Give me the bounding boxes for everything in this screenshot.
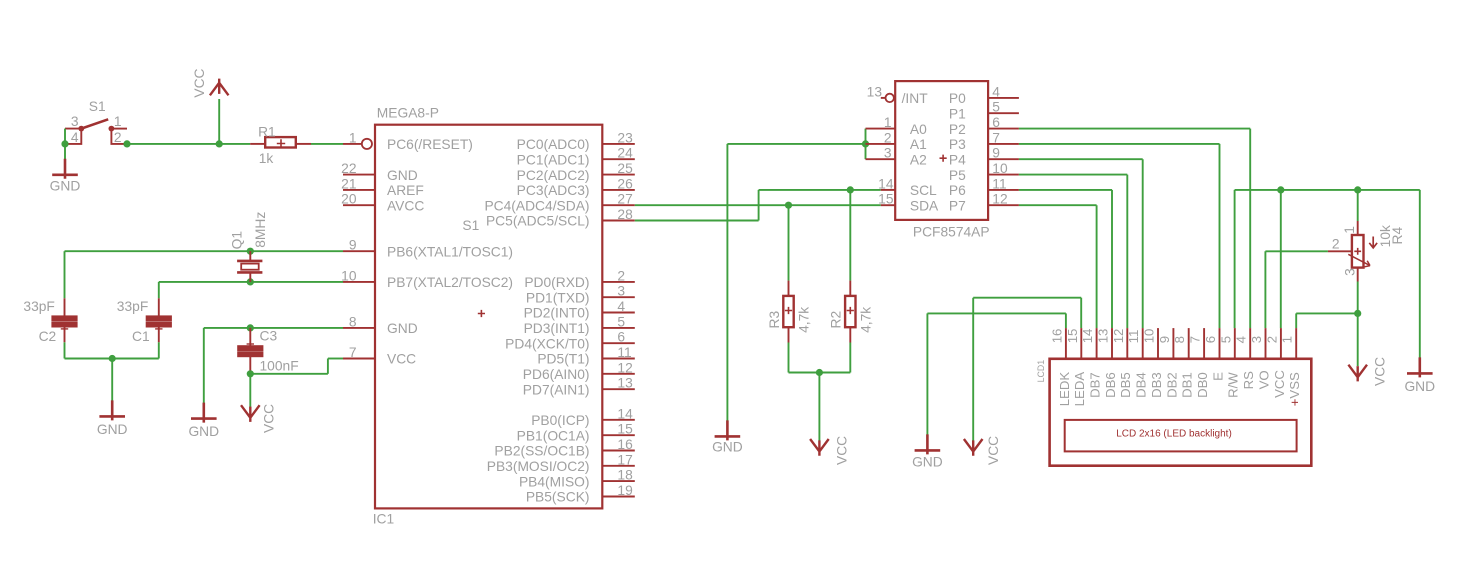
pin 4 P0 (IC2) [949,84,1019,106]
supply VCC (IC1 power) [241,404,277,433]
origin cross IC1 [478,310,485,317]
junction at S1 pin2 [123,140,130,147]
svg-text:VCC: VCC [387,352,416,367]
svg-text:16: 16 [1049,329,1064,344]
svg-text:P4: P4 [949,152,966,167]
junction C3 top [247,324,254,331]
junction pullup VCC [816,369,823,376]
svg-text:GND: GND [387,321,418,336]
pin 16 PB2(SS/OC1B) (IC1 right) [494,437,634,459]
crystal Q1 [237,251,262,282]
svg-text:PC4(ADC4/SDA): PC4(ADC4/SDA) [484,198,589,213]
svg-text:R/W: R/W [1226,372,1241,398]
svg-text:GND: GND [912,454,943,469]
junction LCD pin2 [1277,186,1284,193]
svg-text:3: 3 [1343,268,1358,276]
svg-text:4: 4 [1234,336,1249,343]
svg-text:1: 1 [1280,336,1295,343]
wire P6 to LCD pin 13 [1019,190,1112,328]
svg-text:16: 16 [617,437,633,452]
junction pot bottom VCC [1354,310,1361,317]
svg-text:PD1(TXD): PD1(TXD) [526,290,590,305]
wire to VCC (pullups) [818,373,820,441]
svg-text:PB2(SS/OC1B): PB2(SS/OC1B) [494,444,589,459]
svg-text:8MHz: 8MHz [253,212,268,248]
svg-text:5: 5 [1218,336,1233,343]
resistor R2 [845,281,855,343]
wire XTAL1 net (pin9) [65,251,344,298]
svg-text:VO: VO [1256,370,1271,389]
svg-text:+VSS: +VSS [1287,372,1302,406]
pin 16 LEDK (LCD1) [1049,328,1071,406]
svg-text:DB2: DB2 [1164,372,1179,398]
pin 3 PD1(TXD) (IC1 right) [526,284,635,306]
pin 9 P4 (IC2) [949,146,1019,168]
pin 3 A2 (IC2) [866,146,927,168]
svg-text:VCC: VCC [262,404,277,433]
svg-text:1k: 1k [259,151,274,166]
svg-text:24: 24 [617,146,633,161]
svg-text:1: 1 [1342,226,1357,234]
supply VCC (pullups) [810,436,849,465]
wire S1 pin3 to pin4 [64,129,66,144]
wire R3 R2 common [789,372,851,374]
pin 2 PD0(RXD) (IC1 right) [524,268,634,290]
svg-text:6: 6 [1203,336,1218,343]
svg-text:3: 3 [884,146,892,161]
svg-text:DB6: DB6 [1103,372,1118,398]
pin 11 P6 (IC2) [949,176,1019,198]
svg-text:7: 7 [992,130,1000,145]
svg-text:18: 18 [617,468,633,483]
pin 19 PB5(SCK) (IC1 right) [526,483,635,505]
pin 10 PB7(XTAL2/TOSC2) (IC1 left) [341,268,513,290]
svg-text:R3: R3 [767,311,782,329]
svg-text:E: E [1210,372,1225,381]
svg-text:DB3: DB3 [1149,372,1164,398]
wire SCL net [635,190,881,221]
pin 15 LEDA (LCD1) [1065,328,1087,406]
svg-text:RS: RS [1241,371,1256,390]
wire XTAL2 net (pin10) [159,282,343,298]
pin 8 DB1 (LCD1) [1172,328,1194,398]
ground GND (C3 net) [188,403,219,439]
capacitor C3 [238,328,263,374]
pin 18 PB4(MISO) (IC1 right) [519,468,635,490]
pin 25 PC2(ADC2) (IC1 right) [517,161,635,183]
svg-text:25: 25 [617,161,633,176]
svg-text:VCC: VCC [1272,370,1287,398]
svg-text:GND: GND [1404,379,1435,394]
svg-text:2: 2 [884,130,892,145]
svg-text:P5: P5 [949,168,966,183]
pin 28 PC5(ADC5/SCL) (IC1 right) [486,207,635,229]
potentiometer R4 [1328,221,1377,282]
svg-text:R1: R1 [258,124,276,139]
svg-text:9: 9 [992,146,1000,161]
svg-text:4: 4 [71,130,79,145]
svg-text:VCC: VCC [834,436,849,465]
pin 22 GND (IC1 left) [341,161,418,183]
svg-text:10: 10 [992,161,1008,176]
svg-text:4,7k: 4,7k [797,307,812,333]
capacitor C1 [146,298,171,342]
pin 3 VO (LCD1) [1249,328,1271,389]
pin 23 PC0(ADC0) (IC1 right) [517,130,635,152]
svg-text:P0: P0 [949,91,966,106]
svg-text:17: 17 [617,452,632,467]
svg-text:1: 1 [114,114,122,129]
svg-text:LEDK: LEDK [1057,372,1072,407]
wire GND net (pin8) [204,328,343,404]
pin 14 SCL (IC2) [878,176,937,198]
svg-text:LCD1: LCD1 [1036,360,1046,383]
pin 4 RS (LCD1) [1234,328,1256,389]
svg-text:2: 2 [617,268,625,283]
wire RW VCC GND net [1235,190,1420,362]
wire P4 to LCD pin 11 [1019,159,1143,328]
svg-text:PB6(XTAL1/TOSC1): PB6(XTAL1/TOSC1) [387,244,513,259]
pin 24 PC1(ADC1) (IC1 right) [517,146,635,168]
svg-text:2: 2 [1332,237,1340,252]
svg-text:3: 3 [71,114,79,129]
svg-text:R4: R4 [1390,227,1405,245]
svg-text:P2: P2 [949,122,966,137]
ground GND (C1 C2) [97,400,128,437]
svg-text:R2: R2 [829,311,844,329]
wire R1 to IC1 pin1 [311,143,343,145]
wire C1 C2 to GND [65,342,159,402]
pin 1 PC6(/RESET) (IC1 left) [343,130,473,152]
svg-text:PB7(XTAL2/TOSC2): PB7(XTAL2/TOSC2) [387,275,513,290]
wire S1 pin4 to GND [64,144,66,160]
pin 5 PD3(INT1) (IC1 right) [524,314,635,336]
capacitor C2 [52,298,77,342]
svg-text:11: 11 [992,176,1006,191]
svg-text:PD6(AIN0): PD6(AIN0) [523,367,590,382]
svg-text:PB4(MISO): PB4(MISO) [519,474,590,489]
svg-text:PB1(OC1A): PB1(OC1A) [517,428,590,443]
pin 5 R/W (LCD1) [1218,328,1240,398]
wire VCC net (pin7) [250,359,343,374]
svg-text:PD2(INT0): PD2(INT0) [524,306,590,321]
junction A pins [862,140,869,147]
pin 1 +VSS (LCD1) [1280,328,1302,406]
pin 1 A0 (IC2) [866,115,928,137]
svg-text:P6: P6 [949,183,966,198]
wire R2 top [849,190,851,281]
wire C3 to VCC symbol [249,374,251,407]
svg-text:6: 6 [617,330,625,345]
display LCD1 inner box [1065,420,1297,452]
pin 8 GND (IC1 left) [343,314,418,336]
svg-text:DB1: DB1 [1180,372,1195,398]
wire A0 A1 A2 tie [865,129,867,160]
svg-text:C1: C1 [132,329,150,344]
svg-text:GND: GND [712,440,743,455]
svg-text:15: 15 [617,422,633,437]
svg-text:5: 5 [617,314,625,329]
junction at S1 pin4 [61,140,68,147]
junction crystal bottom [247,278,254,285]
junction pot top [1354,186,1361,193]
pin 9 PB6(XTAL1/TOSC1) (IC1 left) [343,238,513,260]
supply VCC (LEDA) [964,436,1001,465]
pin 12 P7 (IC2) [949,192,1019,214]
svg-text:S1: S1 [89,99,106,114]
display LCD1 body [1050,359,1312,466]
svg-text:28: 28 [617,207,633,222]
junction crystal top [247,248,254,255]
svg-text:PB0(ICP): PB0(ICP) [531,413,589,428]
ground GND (S1) [50,159,81,194]
svg-text:PD0(RXD): PD0(RXD) [524,275,589,290]
svg-text:PD4(XCK/T0): PD4(XCK/T0) [505,336,589,351]
svg-text:100nF: 100nF [260,358,299,373]
resistor R3 [783,281,793,343]
junction R2 SCL [847,186,854,193]
svg-text:4,7k: 4,7k [858,307,873,333]
svg-text:S1: S1 [462,218,479,233]
svg-text:P1: P1 [949,106,966,121]
svg-text:6: 6 [992,115,1000,130]
svg-text:7: 7 [349,345,357,360]
svg-text:P3: P3 [949,137,966,152]
pin 12 DB5 (LCD1) [1111,328,1133,398]
pin 4 PD2(INT0) (IC1 right) [524,299,635,321]
svg-text:1: 1 [884,115,892,130]
svg-text:DB0: DB0 [1195,372,1210,398]
svg-text:GND: GND [50,178,81,193]
svg-text:PC5(ADC5/SCL): PC5(ADC5/SCL) [486,214,590,229]
svg-text:PC3(ADC3): PC3(ADC3) [517,183,590,198]
wire LEDA to VCC [973,298,1081,441]
svg-text:LCD 2x16 (LED backlight): LCD 2x16 (LED backlight) [1116,428,1232,439]
pin 26 PC3(ADC3) (IC1 right) [517,176,635,198]
pin 10 P5 (IC2) [949,161,1019,183]
svg-text:21: 21 [341,176,356,191]
svg-text:/INT: /INT [902,91,929,106]
svg-text:14: 14 [1080,329,1095,344]
svg-text:VCC: VCC [1372,357,1387,386]
switch S1 [65,119,127,144]
svg-text:14: 14 [617,406,633,421]
svg-text:PC6(/RESET): PC6(/RESET) [387,137,473,152]
wire S1 to R1 [127,143,250,145]
svg-text:3: 3 [1249,336,1264,343]
svg-text:23: 23 [617,130,633,145]
svg-text:C2: C2 [39,329,57,344]
wire P5 to LCD pin 12 [1019,175,1127,329]
svg-text:10: 10 [1142,329,1157,344]
pin 15 PB1(OC1A) (IC1 right) [517,422,635,444]
svg-text:C3: C3 [260,328,278,343]
svg-text:PC1(ADC1): PC1(ADC1) [517,152,590,167]
svg-text:11: 11 [1126,330,1141,344]
supply VCC (LCD) [1348,357,1387,386]
svg-text:9: 9 [349,238,357,253]
svg-text:PB5(SCK): PB5(SCK) [526,490,590,505]
pin 14 PB0(ICP) (IC1 right) [531,406,635,428]
svg-text:13: 13 [617,376,633,391]
ground GND (LEDK) [912,434,943,469]
wire P2 to LCD pin 4 [1019,129,1250,329]
resistor R1 [250,137,311,148]
svg-text:22: 22 [341,161,356,176]
op-amp IC1 MEGA8-P body [375,125,602,509]
junction R3 SDA [785,202,792,209]
pin 9 DB2 (LCD1) [1157,328,1179,398]
supply VCC (reset pullup) [192,68,228,97]
svg-text:GND: GND [387,168,418,183]
wire VCC node down [1357,313,1359,366]
svg-text:GND: GND [97,422,128,437]
wire to VCC symbol [218,99,220,144]
junction VCC tap [216,140,223,147]
ground GND (A pins) [712,420,743,454]
svg-text:15: 15 [1065,329,1080,344]
wire LEDK to GND [927,313,1066,435]
svg-text:VCC: VCC [192,68,207,97]
svg-text:PD5(T1): PD5(T1) [537,352,589,367]
svg-text:2: 2 [114,130,122,145]
svg-text:3: 3 [617,284,625,299]
pin 12 PD6(AIN0) (IC1 right) [523,360,635,382]
svg-text:DB4: DB4 [1134,372,1149,398]
svg-text:15: 15 [878,192,894,207]
svg-text:VCC: VCC [986,436,1001,465]
svg-text:11: 11 [617,345,631,360]
wire R2 bottom [849,343,851,373]
svg-text:P7: P7 [949,198,966,213]
svg-text:33pF: 33pF [23,299,54,314]
svg-text:A1: A1 [910,137,927,152]
wire R3 top [788,205,790,280]
pin 17 PB3(MOSI/OC2) (IC1 right) [487,452,635,474]
pin 13 /INT (IC2) [867,84,929,106]
svg-text:4: 4 [992,84,1000,99]
pin 6 PD4(XCK/T0) (IC1 right) [505,330,635,352]
svg-text:13: 13 [1096,329,1111,344]
svg-text:IC1: IC1 [373,512,394,527]
svg-text:1: 1 [349,130,357,145]
svg-text:SDA: SDA [910,198,939,213]
wire P7 to LCD pin 14 [1019,205,1097,328]
svg-text:A2: A2 [910,152,927,167]
pin 5 P1 (IC2) [949,100,1019,122]
wire P3 to LCD pin 6 [1019,144,1220,328]
wire A pins to GND [727,144,865,421]
ground GND (LCD right) [1404,357,1435,394]
svg-text:12: 12 [992,192,1007,207]
svg-text:5: 5 [992,100,1000,115]
wire pot bottom [1357,282,1359,314]
pin 14 DB7 (LCD1) [1080,328,1102,398]
svg-text:Q1: Q1 [229,231,244,249]
junction C3 bottom [247,370,254,377]
svg-text:7: 7 [1188,336,1203,343]
svg-text:SCL: SCL [910,183,937,198]
svg-text:AREF: AREF [387,183,424,198]
svg-text:10: 10 [341,268,357,283]
pin 10 DB3 (LCD1) [1142,328,1164,398]
pin 13 DB6 (LCD1) [1096,328,1118,398]
svg-text:14: 14 [878,176,894,191]
pin 7 P3 (IC2) [949,130,1019,152]
op-amp IC2 PCF8574AP body [895,81,988,220]
svg-text:33pF: 33pF [117,299,148,314]
svg-text:LEDA: LEDA [1072,372,1087,407]
svg-text:13: 13 [867,84,883,99]
pin 6 P2 (IC2) [949,115,1019,137]
junction C1 C2 gnd [109,355,116,362]
pin 2 VCC (LCD1) [1264,328,1286,398]
pin 6 E (LCD1) [1203,328,1225,381]
svg-text:DB7: DB7 [1088,372,1103,398]
svg-text:26: 26 [617,176,633,191]
svg-text:GND: GND [188,424,219,439]
svg-text:AVCC: AVCC [387,198,424,213]
svg-text:PD7(AIN1): PD7(AIN1) [523,382,590,397]
wire R3 bottom [788,343,790,373]
pin 7 DB0 (LCD1) [1188,328,1210,398]
svg-text:PD3(INT1): PD3(INT1) [524,321,590,336]
svg-text:8: 8 [1172,336,1187,343]
svg-text:MEGA8-P: MEGA8-P [377,106,439,121]
pin 2 A1 (IC2) [866,130,927,152]
svg-text:12: 12 [1111,329,1126,344]
wire LCD pin1 to VCC node [1296,313,1358,328]
origin cross IC2 [940,155,947,162]
pin 27 PC4(ADC4/SDA) (IC1 right) [484,192,634,214]
svg-text:DB5: DB5 [1118,372,1133,398]
wire pot wiper to LCD VO [1265,251,1328,328]
svg-text:A0: A0 [910,122,927,137]
svg-text:9: 9 [1157,336,1172,343]
pin 11 PD5(T1) (IC1 right) [537,345,634,367]
svg-text:19: 19 [617,483,633,498]
svg-text:27: 27 [617,192,632,207]
pin 13 PD7(AIN1) (IC1 right) [523,376,635,398]
svg-text:4: 4 [617,299,625,314]
pin 11 DB4 (LCD1) [1126,328,1148,398]
svg-text:2: 2 [1264,336,1279,343]
pin 20 AVCC (IC1 left) [341,192,424,214]
pin 21 AREF (IC1 left) [341,176,424,198]
svg-text:12: 12 [617,360,632,375]
svg-text:8: 8 [349,314,357,329]
svg-text:PCF8574AP: PCF8574AP [913,224,990,239]
wire SDA net [635,204,881,206]
svg-text:PB3(MOSI/OC2): PB3(MOSI/OC2) [487,459,590,474]
svg-text:PC0(ADC0): PC0(ADC0) [517,137,590,152]
pin 7 VCC (IC1 left) [343,345,416,367]
svg-text:20: 20 [341,192,357,207]
pin 15 SDA (IC2) [878,192,939,214]
svg-text:PC2(ADC2): PC2(ADC2) [517,168,590,183]
